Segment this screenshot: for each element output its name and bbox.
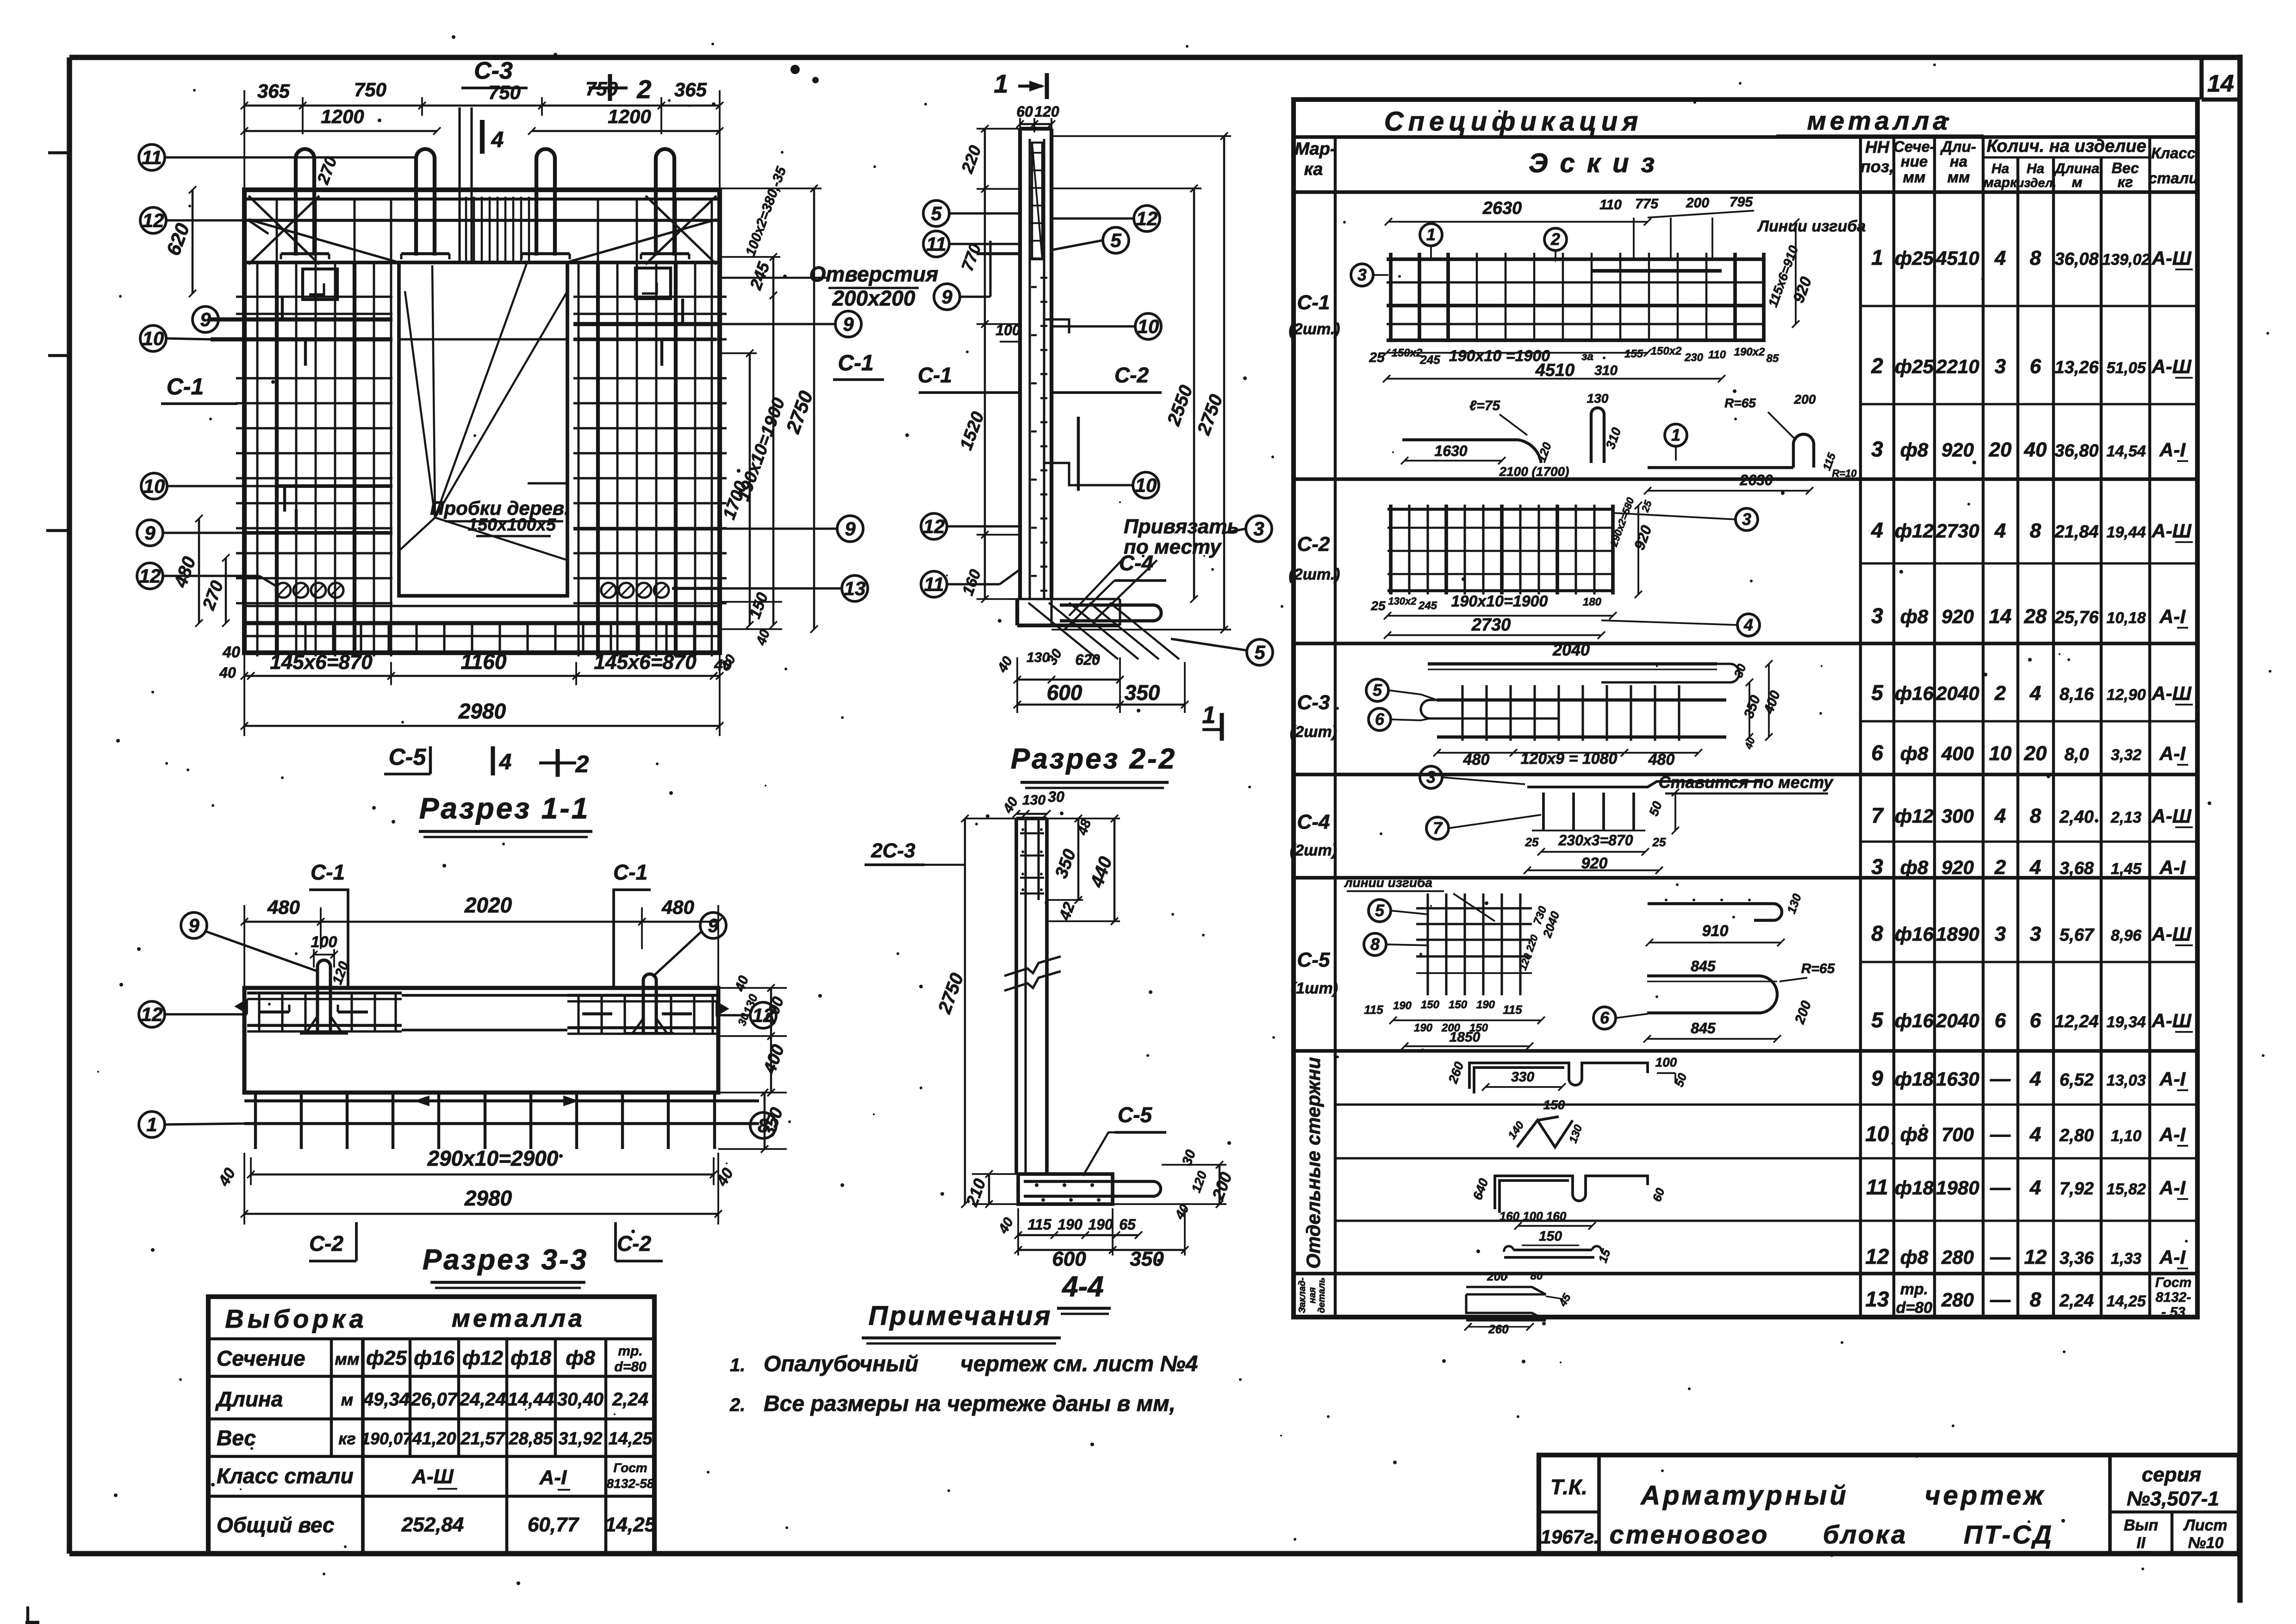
svg-text:Разрез 3-3: Разрез 3-3	[423, 1244, 588, 1276]
svg-text:А-I: А-I	[2159, 1124, 2186, 1145]
svg-text:12: 12	[139, 565, 161, 587]
svg-text:мм: мм	[1903, 169, 1926, 186]
sketch C-4 callouts	[1420, 766, 1442, 788]
right rebar band vertical bars	[578, 262, 580, 656]
svg-text:Опалубочный: Опалубочный	[764, 1352, 918, 1376]
svg-text:Сечение: Сечение	[217, 1346, 305, 1370]
svg-text:365: 365	[674, 79, 707, 100]
left rebar band vertical bars	[256, 262, 259, 656]
svg-text:чертеж: чертеж	[1925, 1480, 2047, 1511]
svg-text:ф16: ф16	[1895, 1010, 1934, 1031]
callout 11	[139, 144, 165, 170]
svg-text:10: 10	[1135, 474, 1157, 496]
svg-text:А-Ш: А-Ш	[2151, 520, 2191, 542]
svg-text:С-1: С-1	[918, 363, 952, 387]
section line C-3 verticals	[458, 107, 460, 262]
plan top-right X brace	[646, 196, 716, 264]
svg-text:252,84: 252,84	[401, 1513, 464, 1536]
svg-text:Класс стали: Класс стали	[217, 1464, 354, 1488]
heavy bars upper right	[573, 322, 720, 326]
svg-text:9: 9	[1871, 1066, 1883, 1090]
svg-text:ка: ка	[1304, 160, 1323, 179]
3-3 bottom dim 2980	[244, 1213, 718, 1215]
svg-text:8: 8	[2030, 805, 2041, 827]
svg-text:А-Ш: А-Ш	[411, 1465, 454, 1488]
svg-text:200: 200	[1686, 195, 1709, 211]
svg-text:С-1: С-1	[838, 351, 873, 375]
dim 100 over left post	[314, 954, 334, 956]
svg-text:200: 200	[1794, 392, 1816, 406]
svg-text:13,03: 13,03	[2106, 1072, 2146, 1089]
svg-text:19,34: 19,34	[2106, 1013, 2146, 1031]
svg-text:480: 480	[661, 896, 694, 918]
svg-text:310: 310	[1594, 363, 1618, 378]
svg-text:145х6=870: 145х6=870	[270, 651, 373, 674]
svg-text:ф16: ф16	[414, 1347, 454, 1369]
vyborka columns	[330, 1339, 333, 1456]
bottom dim row 2980	[244, 725, 720, 727]
svg-text:Гост: Гост	[613, 1461, 647, 1475]
svg-text:А-I: А-I	[2159, 1177, 2186, 1199]
2-2 right dim 2550	[1193, 188, 1195, 599]
spec table header band	[1294, 190, 2197, 194]
svg-text:Колич. на изделие: Колич. на изделие	[1986, 137, 2146, 156]
svg-text:4: 4	[1871, 518, 1883, 542]
left dim 270 bottom	[225, 558, 227, 623]
svg-text:110: 110	[1708, 349, 1726, 361]
svg-text:ф12: ф12	[1895, 805, 1934, 827]
svg-text:2100 (1700): 2100 (1700)	[1499, 464, 1569, 479]
spec table row separators partial	[1860, 305, 2197, 307]
svg-text:Выборка: Выборка	[225, 1304, 367, 1333]
svg-text:330: 330	[1511, 1069, 1534, 1085]
svg-text:100: 100	[1655, 1055, 1677, 1069]
svg-text:8: 8	[2030, 519, 2041, 542]
svg-text:1850: 1850	[1450, 1030, 1481, 1045]
mid heavy bars right band	[573, 527, 720, 531]
svg-text:10: 10	[1989, 742, 2012, 765]
spec table block separators	[1294, 477, 2197, 481]
svg-text:8132-: 8132-	[2156, 1290, 2191, 1305]
svg-text:С-5: С-5	[1297, 949, 1330, 971]
svg-text:31,92: 31,92	[558, 1429, 602, 1449]
svg-text:А-I: А-I	[2159, 1246, 2186, 1268]
svg-text:С-5: С-5	[389, 744, 427, 770]
svg-text:8: 8	[2030, 1288, 2041, 1311]
sketch C-1 bent bar 2	[1402, 438, 1518, 441]
svg-text:Разрез 2-2: Разрез 2-2	[1011, 743, 1176, 775]
sketch C-4 verticals	[1542, 793, 1545, 831]
sketch C-3 bars	[1428, 662, 1717, 666]
svg-text:1,45: 1,45	[2111, 860, 2142, 878]
svg-text:НН: НН	[1865, 137, 1890, 156]
svg-text:2730: 2730	[1935, 520, 1979, 542]
svg-text:920: 920	[1581, 855, 1608, 872]
sketch pos9 bar	[1469, 1063, 1648, 1089]
svg-text:4510: 4510	[1935, 247, 1979, 269]
svg-text:30,40: 30,40	[557, 1389, 604, 1410]
2-2 left callouts	[923, 200, 949, 226]
svg-text:9: 9	[843, 313, 854, 335]
svg-text:6: 6	[2030, 355, 2041, 378]
svg-text:8: 8	[1370, 935, 1380, 954]
svg-text:R=65: R=65	[1801, 961, 1836, 976]
sketch C-1 right dim	[1795, 222, 1797, 324]
svg-text:9: 9	[708, 914, 719, 936]
svg-text:190: 190	[1058, 1216, 1083, 1233]
section mark 2 top	[589, 87, 628, 89]
svg-text:Лист: Лист	[2183, 1517, 2227, 1534]
vyborka table frame	[208, 1297, 654, 1554]
4-4 column top bars	[1020, 832, 1044, 835]
spec table column lines	[1334, 137, 1337, 1317]
svg-text:С-1: С-1	[613, 860, 647, 884]
svg-text:металла: металла	[1807, 106, 1951, 135]
svg-text:Привязать: Привязать	[1124, 515, 1239, 538]
sketch C-5 bar 845 R65	[1647, 976, 1777, 1013]
svg-text:245: 245	[1418, 600, 1437, 612]
svg-text:Мар-: Мар-	[1294, 139, 1336, 159]
svg-text:920: 920	[1941, 606, 1974, 627]
svg-text:марк: марк	[1984, 175, 2018, 190]
svg-text:190: 190	[1414, 1022, 1433, 1034]
svg-text:2: 2	[636, 75, 651, 104]
svg-text:480: 480	[1648, 751, 1675, 768]
svg-text:25: 25	[1369, 350, 1385, 365]
svg-text:6: 6	[1600, 1008, 1610, 1027]
svg-text:за: за	[1581, 350, 1593, 363]
svg-text:85: 85	[1767, 352, 1779, 365]
opening crossing bars	[399, 338, 567, 340]
svg-text:1: 1	[1671, 425, 1680, 444]
svg-text:Линии изгиба: Линии изгиба	[1757, 218, 1866, 235]
svg-text:15,82: 15,82	[2106, 1181, 2146, 1198]
3-3 rail group right	[567, 994, 716, 997]
sketch C-5 mesh	[1426, 893, 1429, 995]
svg-text:4: 4	[491, 128, 504, 152]
4-4 bottom dims row2	[1018, 1249, 1113, 1251]
svg-text:2040: 2040	[1935, 1010, 1979, 1031]
svg-text:190х10=1900: 190х10=1900	[1451, 593, 1548, 610]
svg-text:2: 2	[575, 751, 589, 778]
right dim 2750	[813, 188, 815, 629]
svg-text:9: 9	[144, 522, 156, 543]
right dim 190x10=1900	[772, 257, 775, 625]
4-4 left dim 2750	[964, 818, 966, 1204]
sketch C-1 bottom dims	[1387, 352, 1648, 354]
callout 10 upper	[140, 325, 166, 351]
callout 9 upper	[193, 306, 218, 332]
svg-text:13,26: 13,26	[2054, 358, 2099, 377]
svg-text:14,25: 14,25	[608, 1429, 653, 1449]
svg-text:25,76: 25,76	[2054, 608, 2099, 627]
callout 3 right	[1246, 516, 1272, 542]
svg-text:2730: 2730	[1471, 615, 1511, 635]
svg-text:10: 10	[143, 475, 165, 497]
sketch C-3 callouts	[1366, 679, 1388, 701]
vyborka rows	[208, 1337, 654, 1340]
3-3 rail group left	[247, 992, 402, 994]
svg-text:2: 2	[1994, 682, 2006, 705]
scan speckles	[790, 65, 800, 74]
svg-text:150: 150	[1543, 1098, 1565, 1112]
bottom dim row 145x6	[244, 675, 720, 677]
stray mark bottom left	[25, 1621, 39, 1624]
callout 12 upper	[140, 207, 166, 233]
svg-text:8: 8	[758, 1114, 769, 1136]
svg-text:С-2: С-2	[1297, 533, 1330, 556]
svg-text:40: 40	[2024, 438, 2047, 461]
svg-text:8,0: 8,0	[2065, 745, 2089, 764]
svg-text:155: 155	[1624, 348, 1643, 360]
svg-text:R=65: R=65	[1724, 396, 1756, 410]
svg-text:14: 14	[2207, 70, 2234, 97]
svg-text:290х10=2900: 290х10=2900	[427, 1146, 559, 1170]
svg-text:Гост: Гост	[2155, 1275, 2192, 1290]
plan top-left X brace	[249, 196, 319, 264]
svg-text:350: 350	[1125, 681, 1160, 705]
svg-text:5: 5	[1375, 901, 1385, 920]
svg-text:А-I: А-I	[2159, 1068, 2186, 1090]
svg-text:30: 30	[1048, 788, 1064, 805]
4-4 dim 210	[988, 1174, 990, 1204]
svg-text:тр.: тр.	[1900, 1280, 1928, 1298]
3-3 left callouts	[181, 912, 207, 938]
svg-text:деталь: деталь	[1317, 1278, 1327, 1313]
svg-text:1: 1	[1426, 225, 1436, 244]
top dim row 1200-1200	[244, 130, 437, 132]
2-2 right callouts	[1134, 206, 1160, 231]
svg-text:(2шт.): (2шт.)	[1288, 566, 1340, 583]
svg-text:Длина: Длина	[215, 1387, 283, 1411]
svg-text:480: 480	[267, 896, 300, 918]
sketch C-5 bar 910	[1648, 904, 1782, 920]
svg-text:ф8: ф8	[1900, 1246, 1929, 1268]
svg-text:4: 4	[2029, 1176, 2041, 1199]
svg-text:Отверстия: Отверстия	[809, 262, 939, 286]
2-2 left dim chain	[984, 129, 986, 599]
svg-text:ная: ная	[1307, 1287, 1318, 1303]
svg-text:60: 60	[1016, 103, 1033, 120]
svg-text:280: 280	[1941, 1289, 1974, 1311]
svg-text:4: 4	[1994, 247, 2006, 269]
svg-text:12: 12	[2024, 1246, 2047, 1268]
svg-text:С-4: С-4	[1119, 551, 1153, 575]
svg-text:4: 4	[499, 750, 512, 775]
svg-text:60,77: 60,77	[528, 1513, 580, 1536]
svg-text:845: 845	[1691, 958, 1716, 974]
svg-text:(1шт): (1шт)	[1291, 980, 1338, 997]
svg-text:920: 920	[1941, 439, 1974, 461]
svg-text:—: —	[1990, 1246, 2011, 1268]
svg-text:14,25: 14,25	[605, 1513, 656, 1536]
svg-text:26,07: 26,07	[411, 1389, 458, 1410]
svg-text:ф8: ф8	[1900, 856, 1929, 878]
svg-text:4: 4	[1994, 519, 2006, 542]
svg-text:230х3=870: 230х3=870	[1558, 832, 1633, 849]
svg-text:1: 1	[146, 1113, 157, 1135]
scan noise dots	[2028, 658, 2032, 662]
anchor circles bottom left	[276, 583, 291, 598]
4-4 break mark	[1004, 956, 1061, 976]
3-3 right hook post pos9	[643, 974, 656, 1033]
svg-text:1160: 1160	[461, 650, 507, 674]
svg-text:19,44: 19,44	[2106, 524, 2146, 541]
svg-text:d=80: d=80	[1896, 1299, 1933, 1317]
svg-text:ф8: ф8	[1900, 1124, 1929, 1145]
svg-text:2: 2	[1871, 354, 1883, 378]
svg-text:Вып: Вып	[2124, 1517, 2159, 1534]
svg-text:Т.К.: Т.К.	[1550, 1475, 1587, 1499]
2-2 bottom dims 600 350	[1017, 704, 1120, 706]
svg-text:620: 620	[1075, 651, 1100, 668]
callout 9 right upper	[835, 311, 861, 337]
svg-text:9: 9	[200, 308, 211, 330]
svg-text:на: на	[1950, 153, 1967, 170]
svg-text:С-1: С-1	[167, 374, 204, 400]
svg-text:65: 65	[1119, 1216, 1136, 1233]
svg-text:5: 5	[1254, 641, 1265, 663]
svg-text:11: 11	[926, 233, 946, 255]
svg-text:А-I: А-I	[2159, 743, 2186, 764]
svg-text:920: 920	[1941, 856, 1974, 878]
3-3 bottom dim 290x10	[251, 1174, 714, 1176]
svg-text:2,24: 2,24	[2059, 1291, 2094, 1311]
callout 10 lower	[141, 473, 167, 499]
svg-text:На: На	[1991, 161, 2009, 176]
svg-text:1980: 1980	[1936, 1177, 1979, 1199]
svg-text:12: 12	[1865, 1244, 1889, 1268]
svg-text:№10: №10	[2188, 1534, 2224, 1552]
svg-text:ф25: ф25	[366, 1347, 407, 1369]
sketch C-2 callouts	[1736, 508, 1758, 531]
left rebar band horizontal bars	[236, 295, 392, 298]
svg-text:Примечания: Примечания	[869, 1301, 1052, 1331]
2-2 pos9 step bar	[990, 241, 1020, 254]
opening box left 200x200	[303, 269, 337, 300]
svg-text:40: 40	[222, 643, 240, 661]
2-2 foot block	[1017, 598, 1120, 600]
svg-text:—: —	[1990, 1123, 2011, 1146]
svg-text:115: 115	[1027, 1216, 1052, 1233]
svg-text:А-Ш: А-Ш	[2151, 247, 2191, 269]
svg-text:—: —	[1990, 1288, 2011, 1311]
svg-text:8132-58: 8132-58	[607, 1476, 654, 1491]
plan bottom stud ticks	[276, 623, 279, 652]
svg-text:линии изгиба: линии изгиба	[1344, 875, 1432, 890]
svg-text:11: 11	[142, 146, 162, 168]
title block frame	[1539, 1455, 2239, 1554]
2-2 foot bar with hook	[1060, 605, 1161, 621]
callout 5 bottom right	[1247, 639, 1273, 665]
svg-text:280: 280	[1941, 1246, 1974, 1268]
svg-text:—: —	[1990, 1068, 2011, 1090]
svg-text:На: На	[2027, 161, 2044, 176]
section mark 4 bottom	[491, 746, 495, 775]
svg-text:С-4: С-4	[1297, 811, 1330, 833]
central opening outline	[399, 262, 567, 596]
svg-text:4: 4	[1994, 805, 2006, 827]
lifting hook loops (pos.11)	[296, 149, 314, 256]
svg-text:ф12: ф12	[462, 1347, 503, 1369]
svg-text:1: 1	[1202, 702, 1216, 729]
svg-text:24,24: 24,24	[459, 1389, 506, 1410]
svg-text:28: 28	[2024, 605, 2047, 628]
svg-text:С-3: С-3	[474, 57, 513, 84]
svg-text:20: 20	[2024, 742, 2047, 765]
svg-text:1.: 1.	[730, 1355, 745, 1375]
svg-text:4: 4	[1743, 615, 1753, 634]
svg-text:3,36: 3,36	[2060, 1249, 2094, 1268]
4-4 column outline	[1014, 818, 1018, 1174]
svg-text:Спецификация: Спецификация	[1384, 106, 1643, 137]
svg-text:Класс: Класс	[2151, 144, 2196, 162]
svg-text:3,68: 3,68	[2060, 859, 2094, 878]
svg-text:1200: 1200	[608, 106, 651, 127]
svg-text:1630: 1630	[1936, 1068, 1979, 1090]
svg-text:Ставится по месту: Ставится по месту	[1659, 773, 1834, 792]
svg-text:775: 775	[1635, 196, 1659, 212]
svg-text:2020: 2020	[464, 893, 512, 917]
3-3 left hook post pos9	[317, 960, 330, 1033]
svg-text:3: 3	[1995, 923, 2006, 945]
svg-text:А-Ш: А-Ш	[2151, 1010, 2191, 1031]
sketch C-2 mesh	[1389, 505, 1393, 594]
3-3 long bar lower	[244, 1122, 759, 1125]
svg-text:150: 150	[1539, 1229, 1562, 1244]
svg-text:145х6=870: 145х6=870	[594, 651, 697, 674]
svg-text:3: 3	[1871, 437, 1883, 461]
sketch C-1 hook bar 1	[1665, 424, 1687, 446]
svg-text:13: 13	[1865, 1287, 1889, 1311]
svg-text:Отдельные стержни: Отдельные стержни	[1302, 1057, 1324, 1268]
svg-text:- 53: - 53	[2161, 1305, 2185, 1320]
svg-text:36,80: 36,80	[2054, 441, 2098, 461]
svg-text:1200: 1200	[321, 106, 364, 127]
svg-text:А-I: А-I	[2159, 606, 2186, 627]
svg-text:130: 130	[1022, 793, 1045, 808]
svg-text:150х2: 150х2	[1392, 347, 1423, 359]
2-2 hatch under foot	[1028, 603, 1098, 659]
svg-text:кг: кг	[2117, 174, 2133, 190]
svg-text:14,25: 14,25	[2106, 1293, 2146, 1310]
svg-text:480: 480	[1463, 751, 1490, 768]
svg-text:10: 10	[1865, 1122, 1889, 1146]
svg-text:С-1: С-1	[1297, 291, 1330, 314]
callout 9 right lower	[837, 516, 863, 542]
svg-text:9: 9	[845, 518, 856, 539]
svg-text:40: 40	[219, 664, 236, 681]
svg-text:5: 5	[1373, 681, 1382, 700]
svg-text:2,24: 2,24	[612, 1389, 648, 1410]
spec table outer frame	[1294, 100, 2197, 1317]
svg-text:Разрез 1-1: Разрез 1-1	[419, 792, 590, 825]
mid heavy bars left band	[278, 484, 392, 488]
svg-text:ф25: ф25	[1895, 356, 1934, 377]
svg-text:700: 700	[1941, 1124, 1974, 1145]
svg-text:3,32: 3,32	[2111, 746, 2141, 764]
svg-text:2040: 2040	[1552, 640, 1590, 659]
svg-text:150: 150	[1421, 999, 1440, 1011]
svg-text:7: 7	[1871, 803, 1884, 827]
svg-text:1,33: 1,33	[2111, 1250, 2141, 1268]
2-2 right dim 2750	[1223, 136, 1226, 630]
svg-text:6,52: 6,52	[2060, 1070, 2094, 1090]
svg-text:25: 25	[1370, 599, 1386, 613]
svg-text:2: 2	[1994, 856, 2006, 879]
svg-text:стали: стали	[2148, 169, 2198, 187]
3-3 mid connecting bars	[402, 994, 567, 997]
